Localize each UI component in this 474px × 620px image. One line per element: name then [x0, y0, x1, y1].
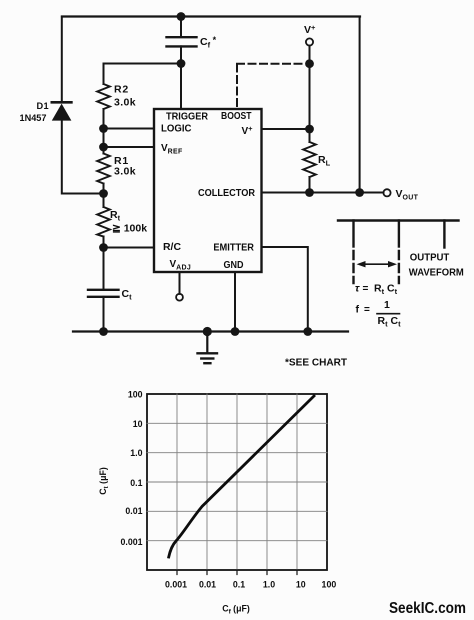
svg-text:=: =: [363, 284, 369, 295]
capacitor Cf with asterisk label: [167, 35, 217, 50]
svg-text:f: f: [356, 304, 360, 316]
output waveform sketch top line: [338, 219, 459, 221]
svg-text:R/C: R/C: [163, 242, 181, 253]
wire left branch from top rail to diode cathode: [61, 17, 63, 103]
svg-text:D1: D1: [37, 101, 50, 111]
node junction Rt bottom / RC pin / Ct: [99, 243, 108, 252]
wire Ct top lead: [103, 248, 105, 290]
wire RC pin: [104, 247, 155, 249]
svg-text:3.0k: 3.0k: [114, 166, 136, 178]
node junction R1 bottom / diode / Rt top: [99, 189, 108, 198]
node junction emitter / ground rail: [303, 327, 312, 336]
op-amp U1 timer IC box: [154, 109, 262, 272]
formula f equals one over Rt Ct: [356, 299, 402, 328]
svg-text:0.1: 0.1: [130, 478, 142, 488]
chart curve Ct vs Cf: [169, 396, 314, 557]
svg-text:WAVEFORM: WAVEFORM: [409, 267, 464, 278]
node junction RL bottom / collector: [305, 188, 314, 197]
wire Ct bottom lead: [103, 297, 105, 332]
wire Cf bottom lead: [180, 46, 182, 63]
node junction top rail / Cf: [177, 12, 186, 21]
svg-text:Cf *: Cf *: [200, 35, 217, 50]
svg-text:Ct: Ct: [122, 288, 133, 302]
wire vref pin: [104, 146, 155, 148]
resistor R1 3.0k: [97, 147, 136, 194]
wire boost dashed horizontal: [237, 63, 305, 65]
svg-text:Rt Ct: Rt Ct: [374, 283, 398, 297]
chart vertical gridlines: [177, 394, 297, 570]
svg-text:=: =: [364, 305, 370, 316]
svg-text:LOGIC: LOGIC: [161, 124, 192, 135]
resistor RL: [303, 129, 330, 193]
wire V+ pin horizontal: [262, 128, 310, 130]
svg-text:V+: V+: [242, 124, 254, 137]
wire collector output: [262, 192, 384, 194]
svg-text:1.0: 1.0: [130, 448, 142, 458]
svg-text:0.01: 0.01: [125, 506, 142, 516]
svg-text:3.0k: 3.0k: [114, 97, 136, 109]
output waveform pulse edge 1 solid and dashed: [352, 221, 354, 284]
svg-text:10: 10: [133, 419, 143, 429]
wire V+ vertical to IC: [309, 46, 311, 129]
svg-text:τ: τ: [355, 283, 360, 295]
svg-text:OUTPUT: OUTPUT: [410, 252, 450, 263]
svg-text:1N457: 1N457: [20, 113, 47, 123]
node junction vref / R1 top: [99, 143, 108, 152]
capacitor Ct: [88, 288, 132, 302]
wire between logic and vref nodes: [103, 129, 105, 148]
node junction boost dashed tee: [305, 59, 314, 68]
svg-text:*SEE CHART: *SEE CHART: [285, 357, 347, 368]
terminal V+ supply: [304, 23, 316, 46]
watermark SeekIC.com: [389, 600, 466, 617]
wire emitter pin: [262, 247, 308, 332]
svg-text:1.0: 1.0: [263, 580, 275, 590]
wire right vertical from top rail: [359, 17, 361, 193]
svg-text:0.001: 0.001: [165, 580, 187, 590]
node junction Ct / ground rail: [99, 327, 108, 336]
svg-text:0.01: 0.01: [199, 580, 216, 590]
node junction R2 bottom / logic: [99, 124, 108, 133]
wire R2 top horizontal: [104, 63, 182, 65]
svg-text:Rt: Rt: [110, 209, 121, 223]
svg-text:VOUT: VOUT: [396, 188, 419, 202]
node junction ground symbol tap: [203, 327, 212, 336]
period arrow double headed: [357, 261, 398, 267]
wire GND pin vertical: [234, 272, 236, 332]
chart x axis title Cf: [222, 604, 250, 616]
chart horizontal gridlines: [147, 423, 327, 540]
svg-text:RL: RL: [318, 154, 331, 168]
svg-text:BOOST: BOOST: [221, 111, 252, 122]
resistor Rt 100k: [97, 194, 147, 248]
svg-text:V+: V+: [304, 23, 316, 36]
terminal VOUT: [383, 188, 418, 202]
svg-text:0.1: 0.1: [233, 580, 245, 590]
svg-text:1: 1: [384, 299, 390, 311]
svg-text:≧ 100k: ≧ 100k: [112, 223, 147, 235]
svg-text:VREF: VREF: [161, 143, 183, 156]
node junction GND pin / ground rail: [231, 327, 240, 336]
svg-text:Cf (μF): Cf (μF): [222, 604, 250, 616]
svg-text:EMITTER: EMITTER: [213, 243, 254, 254]
wire Cf top lead: [180, 17, 182, 37]
svg-text:GND: GND: [224, 260, 244, 271]
node junction right vertical / collector: [355, 188, 364, 197]
svg-text:100: 100: [322, 580, 337, 590]
chart bottom axis ticks: [177, 570, 297, 575]
svg-text:0.001: 0.001: [120, 537, 142, 547]
node junction Cf bottom / R2 top / trigger: [177, 59, 186, 68]
output waveform pulse edge 2 solid and dashed: [398, 221, 400, 284]
chart plot frame: [147, 394, 327, 570]
wire trigger pin vertical: [180, 64, 182, 110]
label output waveform: [409, 252, 464, 278]
svg-text:COLLECTOR: COLLECTOR: [198, 188, 256, 199]
svg-text:TRIGGER: TRIGGER: [166, 112, 209, 123]
svg-text:Rt Ct: Rt Ct: [378, 315, 402, 329]
svg-text:10: 10: [296, 580, 306, 590]
svg-text:SeekIC.com: SeekIC.com: [389, 600, 466, 617]
chart x axis labels: [165, 580, 336, 590]
chart y axis labels: [120, 390, 142, 548]
output waveform pulse edge 3: [443, 221, 445, 248]
terminal VADJ open circle: [176, 272, 183, 301]
diode D1 1N457: [20, 101, 72, 123]
svg-text:Ct (μF): Ct (μF): [98, 467, 110, 495]
wire bottom ground rail: [73, 330, 348, 332]
formula tau equals Rt Ct: [355, 283, 398, 297]
chart y axis title Ct: [98, 467, 110, 495]
svg-text:100: 100: [128, 390, 143, 400]
wire top supply rail: [62, 15, 360, 17]
resistor R2 3.0k: [97, 64, 136, 129]
svg-text:R2: R2: [114, 84, 129, 96]
ground: [198, 332, 218, 364]
wire logic pin: [104, 128, 155, 130]
wire boost dashed vertical: [236, 65, 238, 110]
wire diode anode down and right to R1/Rt junction: [62, 121, 104, 194]
svg-text:VADJ: VADJ: [170, 259, 192, 272]
note see chart: [285, 357, 347, 368]
node junction V+ pin / RL top: [305, 125, 314, 134]
